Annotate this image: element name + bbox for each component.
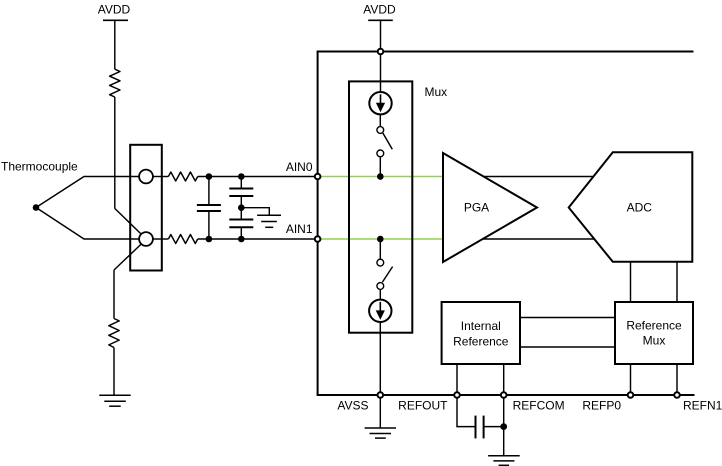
wire ADC to Reference Mux (left) xyxy=(630,262,632,302)
wire Internal Reference to REFCOM xyxy=(503,364,505,395)
wire I1 to switch S1 xyxy=(379,114,381,126)
wire PGA to ADC (lower) xyxy=(483,238,595,240)
wire C4 to REFCOM net xyxy=(484,426,504,428)
connector J1 body xyxy=(130,145,162,271)
junction dot C2 top xyxy=(238,173,245,180)
ADC block xyxy=(569,152,693,261)
wire R4 to ground xyxy=(113,348,115,396)
node AIN0 pin xyxy=(315,174,321,180)
ground G2 (filter common) xyxy=(257,215,281,227)
wire diagonal to connector pin 2 xyxy=(115,208,141,233)
switch S1 xyxy=(377,127,392,157)
wire ADC to Reference Mux (right) xyxy=(676,262,678,302)
junction dot C3 bottom xyxy=(238,236,245,243)
svg-text:Reference: Reference xyxy=(453,334,509,348)
junction dot mux AIN0 xyxy=(377,173,384,180)
ground G4 (REFCOM) xyxy=(488,456,520,466)
node AIN1 green net xyxy=(320,238,443,240)
power bar AVDD (chip) xyxy=(368,19,393,21)
svg-text:PGA: PGA xyxy=(464,201,489,215)
svg-text:Mux: Mux xyxy=(425,85,448,99)
current source I2 xyxy=(369,300,391,322)
capacitor C2 (AIN0 to common) xyxy=(229,177,253,208)
Mux box xyxy=(349,81,412,332)
wire Reference Mux to REFP0 xyxy=(630,364,632,395)
junction dot mux AIN1 xyxy=(377,236,384,243)
current source I1 xyxy=(369,92,391,114)
wire jog to signal ground xyxy=(241,208,269,216)
wire R2 to AIN0 pin xyxy=(198,176,315,178)
node REFP0 pin xyxy=(628,392,634,398)
chip top edge xyxy=(317,51,694,53)
wire down to R4 xyxy=(113,270,115,319)
svg-text:Thermocouple: Thermocouple xyxy=(1,160,78,174)
wire S2 to current source I2 xyxy=(379,289,381,299)
wire Internal Reference to Reference Mux (lower) xyxy=(520,346,615,348)
wire REFCOM to ground xyxy=(503,398,505,456)
capacitor C3 (common to AIN1) xyxy=(229,208,253,239)
wire AVDD bar to R1 xyxy=(114,20,116,69)
Internal Reference box U2 xyxy=(442,302,520,364)
svg-text:Internal: Internal xyxy=(461,319,501,333)
junction dot C2/C3 middle xyxy=(238,204,245,211)
connector pin 2 circle xyxy=(139,232,153,246)
svg-text:AIN0: AIN0 xyxy=(286,160,313,174)
Reference Mux box U3 xyxy=(615,302,693,364)
op-amp PGA xyxy=(443,153,537,262)
power bar AVDD (left) xyxy=(103,19,128,21)
svg-text:Reference: Reference xyxy=(626,319,682,333)
svg-text:ADC: ADC xyxy=(627,201,653,215)
wire Internal Reference to REFOUT xyxy=(456,364,458,395)
resistor R3 (AIN1 filter) xyxy=(168,235,197,244)
wire PGA to ADC (upper) xyxy=(484,176,594,178)
wire thermocouple lower lead xyxy=(36,208,139,240)
connector pin 1 circle xyxy=(139,170,153,184)
junction dot C1 top xyxy=(206,173,213,180)
ground G3 (AVSS) xyxy=(365,428,396,438)
node AVSS pin xyxy=(378,392,384,398)
svg-text:AIN1: AIN1 xyxy=(286,222,313,236)
wire R3 to AIN1 pin xyxy=(198,238,315,240)
node REFOUT pin xyxy=(454,392,460,398)
svg-text:Mux: Mux xyxy=(643,334,666,348)
svg-text:AVDD: AVDD xyxy=(98,3,131,17)
wire REFOUT to bypass capacitor C4 xyxy=(457,398,476,427)
wire pin1 to R2 xyxy=(153,176,169,178)
wire thermocouple upper lead xyxy=(36,177,139,208)
wire R1 to diagonal xyxy=(114,97,116,208)
switch S2 xyxy=(377,259,393,289)
svg-text:REFP0: REFP0 xyxy=(582,398,621,412)
chip left edge xyxy=(317,52,319,396)
wire connector pin 2 to lower chain diagonal xyxy=(114,244,141,270)
thermocouple junction dot xyxy=(33,204,40,211)
node AVDD (chip top pin) xyxy=(378,49,384,55)
svg-text:REFCOM: REFCOM xyxy=(513,398,565,412)
node REFN1 pin xyxy=(674,392,680,398)
wire AVDD bar to current source I1 xyxy=(380,20,382,92)
svg-text:AVDD: AVDD xyxy=(363,3,396,17)
capacitor C4 (reference bypass) xyxy=(476,416,484,439)
wire AIN1 net to switch S2 xyxy=(379,239,381,259)
node AIN0 green net xyxy=(320,176,443,178)
resistor R1 (bias pull-up) xyxy=(110,69,120,97)
wire Internal Reference to Reference Mux (upper) xyxy=(520,317,615,319)
junction dot C4/REFCOM xyxy=(500,423,507,430)
resistor R4 (bias pull-down) xyxy=(109,319,119,348)
svg-text:REFN1: REFN1 xyxy=(683,398,722,412)
svg-text:AVSS: AVSS xyxy=(337,398,368,412)
junction dot C1 bottom xyxy=(206,236,213,243)
svg-text:REFOUT: REFOUT xyxy=(398,398,448,412)
wire I2 to AVSS xyxy=(379,322,381,395)
wire pin2 to R3 xyxy=(153,238,169,240)
resistor R2 (AIN0 filter) xyxy=(168,172,197,181)
capacitor C1 (differential) xyxy=(197,177,221,240)
wire Reference Mux to REFN1 xyxy=(676,364,678,395)
ground G1 xyxy=(99,395,130,406)
chip bottom edge xyxy=(317,394,695,396)
wire S1 to AIN0 net xyxy=(379,157,381,177)
node REFCOM pin xyxy=(501,392,507,398)
node AIN1 pin xyxy=(315,236,321,242)
wire AVSS to ground xyxy=(379,398,381,428)
